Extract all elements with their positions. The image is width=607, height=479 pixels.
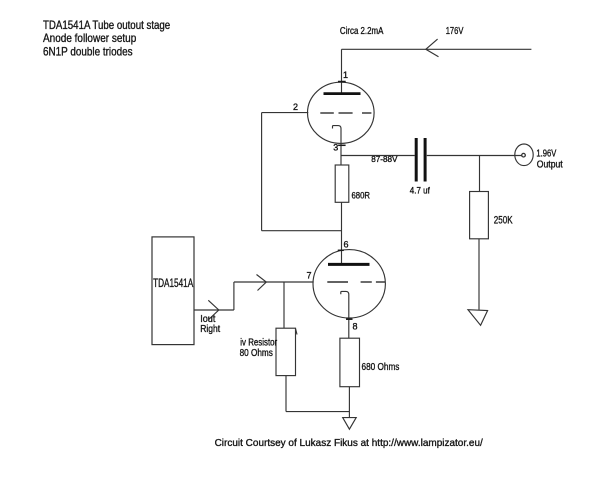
wire top supply rail 176V bbox=[342, 48, 532, 50]
capacitor C1 4.7uf right plate bbox=[424, 138, 427, 182]
wire 680 Ohms to ground bbox=[348, 387, 350, 418]
wire vertical up from Iout bbox=[233, 282, 235, 310]
wire junction down to iv resistor bbox=[283, 282, 285, 328]
resistor 250K body bbox=[470, 192, 489, 239]
svg-text:4.7 uf: 4.7 uf bbox=[410, 186, 430, 196]
svg-text:680R: 680R bbox=[352, 190, 371, 200]
junction tick tube V1 pin 1 bbox=[338, 81, 346, 83]
wire grid V1 pin 2 bbox=[262, 112, 309, 114]
tube V2 anode plate bar bbox=[328, 263, 370, 266]
svg-text:Output: Output bbox=[537, 159, 563, 170]
iv resistor corner tick bbox=[296, 329, 298, 335]
svg-text:Circa 2.2mA: Circa 2.2mA bbox=[340, 26, 384, 37]
arrow signal direction on grid wire (pointing right) bbox=[257, 275, 267, 291]
svg-text:3: 3 bbox=[333, 143, 338, 153]
wire Iout from DAC bbox=[194, 309, 234, 311]
wire junction down to 250K bbox=[479, 156, 481, 192]
tube V1 grid (dashed) bbox=[320, 112, 334, 114]
svg-text:8: 8 bbox=[353, 322, 358, 332]
wire 680R bottom to tube V2 anode pin 6 bbox=[341, 202, 343, 264]
svg-text:680 Ohms: 680 Ohms bbox=[362, 362, 400, 373]
wire left feedback loop vertical bbox=[261, 113, 263, 231]
wire left feedback loop bottom bbox=[262, 230, 342, 232]
svg-text:80 Ohms: 80 Ohms bbox=[240, 348, 273, 359]
svg-text:6: 6 bbox=[344, 240, 349, 250]
svg-text:TDA1541A: TDA1541A bbox=[153, 276, 193, 290]
svg-text:1: 1 bbox=[343, 70, 348, 80]
svg-text:Right: Right bbox=[200, 324, 220, 335]
DAC chip TDA1541A box bbox=[152, 237, 194, 345]
wire to grid V2 pin 7 bbox=[234, 281, 314, 283]
junction tick tube V1 pin 3 bbox=[338, 144, 346, 146]
output connector center pin bbox=[522, 153, 526, 157]
junction tick tube V2 pin 8 bbox=[346, 318, 353, 320]
tube V2 envelope (6N1P triode b) bbox=[313, 250, 385, 318]
tube V1 envelope (6N1P triode a) bbox=[308, 82, 375, 143]
tube V1 anode plate bar bbox=[324, 92, 361, 95]
svg-text:Anode follower setup: Anode follower setup bbox=[43, 31, 137, 45]
node cathode V1 / wire to coupling cap bbox=[341, 155, 415, 157]
svg-text:176V: 176V bbox=[446, 26, 464, 37]
resistor 680 Ohms body bbox=[340, 338, 360, 387]
resistor 680R body bbox=[335, 165, 349, 202]
svg-text:7: 7 bbox=[307, 271, 312, 281]
arrow signal direction on Iout wire (pointing right) bbox=[208, 300, 219, 319]
svg-text:6N1P double triodes: 6N1P double triodes bbox=[43, 45, 133, 59]
svg-text:2: 2 bbox=[293, 102, 298, 112]
output connector ring bbox=[515, 144, 533, 166]
ground symbol right bbox=[468, 310, 488, 326]
tube V2 cathode hook bbox=[341, 291, 349, 338]
junction tick tube V2 pin 6 bbox=[338, 249, 344, 251]
svg-text:1.96V: 1.96V bbox=[536, 149, 556, 160]
capacitor C1 4.7uf left plate bbox=[415, 138, 418, 182]
svg-text:TDA1541A Tube outout stage: TDA1541A Tube outout stage bbox=[43, 18, 170, 32]
svg-text:250K: 250K bbox=[494, 214, 513, 226]
resistor iv 80 Ohms body bbox=[276, 328, 296, 375]
arrow current direction on supply rail (pointing left) bbox=[426, 39, 439, 57]
wire ground bus horizontal bbox=[286, 411, 349, 413]
tube V1 cathode hook bbox=[333, 126, 342, 165]
wire anode lead tube V1 pin 1 bbox=[341, 49, 343, 93]
ground symbol bottom bbox=[343, 418, 357, 430]
svg-text:87-88V: 87-88V bbox=[371, 154, 398, 164]
wire coupling cap to output bbox=[427, 155, 522, 157]
tube V2 grid (dashed) bbox=[327, 281, 348, 283]
svg-text:Circuit Courtsey of Lukasz Fik: Circuit Courtsey of Lukasz Fikus at http… bbox=[215, 437, 483, 449]
wire 250K to ground bbox=[478, 239, 480, 310]
wire iv resistor to ground bus bbox=[285, 376, 287, 412]
